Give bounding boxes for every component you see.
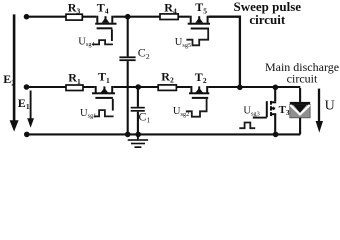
svg-text:U: U xyxy=(325,98,335,113)
resistor R3 xyxy=(66,1,82,21)
svg-text:T4: T4 xyxy=(97,0,109,15)
svg-text:Usg1: Usg1 xyxy=(80,108,96,120)
resistor R4 xyxy=(160,0,178,19)
node bottom-left xyxy=(24,132,30,138)
transistor T2 arrow xyxy=(195,88,203,93)
resistor R1 xyxy=(66,71,83,91)
wire middle rail right segment xyxy=(208,86,300,88)
svg-text:Usg3: Usg3 xyxy=(243,106,259,118)
transistor T3 arrow xyxy=(270,107,274,111)
svg-text:C2: C2 xyxy=(138,46,150,61)
transistor T3 (MOSFET, vertical) xyxy=(253,87,276,134)
svg-text:R1: R1 xyxy=(68,71,81,86)
svg-text:R2: R2 xyxy=(161,70,174,85)
wire middle rail center segment xyxy=(113,86,190,88)
wire top rail middle segment xyxy=(113,16,189,18)
svg-text:C1: C1 xyxy=(139,109,151,124)
transistor T5 arrow xyxy=(195,18,203,23)
node middle rail / branch from top xyxy=(237,85,243,91)
transistor T1 arrow xyxy=(101,88,109,93)
svg-text:E1: E1 xyxy=(18,96,30,111)
output voltage arrow U xyxy=(316,89,335,133)
node bottom rail / C1 ground xyxy=(135,132,141,138)
pulse source U_sg3 waveform xyxy=(239,123,255,129)
svg-text:T3: T3 xyxy=(279,104,290,117)
svg-text:T5: T5 xyxy=(195,0,207,15)
wire top rail right segment with branch down to middle rail xyxy=(209,17,240,88)
voltage arrow E2 xyxy=(3,14,18,131)
wire middle rail left segment xyxy=(27,86,95,88)
pulse source U_sg5 waveform (inverted) with gate lead xyxy=(186,30,208,46)
voltage arrow E1 xyxy=(18,91,34,128)
transistor T4 (MOSFET, horizontal) xyxy=(95,16,116,41)
svg-text:T1: T1 xyxy=(98,70,110,85)
svg-text:circuit: circuit xyxy=(287,72,318,86)
capacitor C2 xyxy=(119,17,149,135)
node bottom rail / T3 source xyxy=(273,132,279,138)
transistor T5 (MOSFET, horizontal) xyxy=(188,16,210,30)
node top-left xyxy=(24,14,30,20)
discharge load diode D (gray symbol) xyxy=(290,88,310,134)
transistor T1 (MOSFET, horizontal) xyxy=(92,86,115,111)
svg-text:circuit: circuit xyxy=(249,12,286,27)
wire bottom rail xyxy=(27,133,301,135)
pulse source U_sg1 waveform xyxy=(94,110,114,116)
transistor T2 (MOSFET, horizontal) xyxy=(189,86,209,99)
node middle rail / C1 xyxy=(135,84,141,90)
capacitor C1 xyxy=(131,87,151,134)
wire top rail left segment xyxy=(27,16,97,18)
svg-text:R3: R3 xyxy=(68,1,81,16)
ground xyxy=(128,135,148,148)
node middle-left xyxy=(24,84,30,90)
resistor R2 xyxy=(158,70,176,91)
pulse source U_sg4 waveform xyxy=(92,40,113,44)
transistor T4 arrow xyxy=(102,18,110,23)
svg-text:R4: R4 xyxy=(164,0,177,15)
node junction top rail / C2 xyxy=(125,14,131,20)
svg-text:Usg2: Usg2 xyxy=(173,106,189,118)
svg-text:T2: T2 xyxy=(195,70,207,85)
svg-text:Usg4: Usg4 xyxy=(78,36,95,48)
node middle rail / T3 drain xyxy=(273,85,279,91)
pulse source U_sg2 waveform (inverted) with gate lead xyxy=(186,99,207,117)
node bottom rail / C2 xyxy=(125,132,131,138)
